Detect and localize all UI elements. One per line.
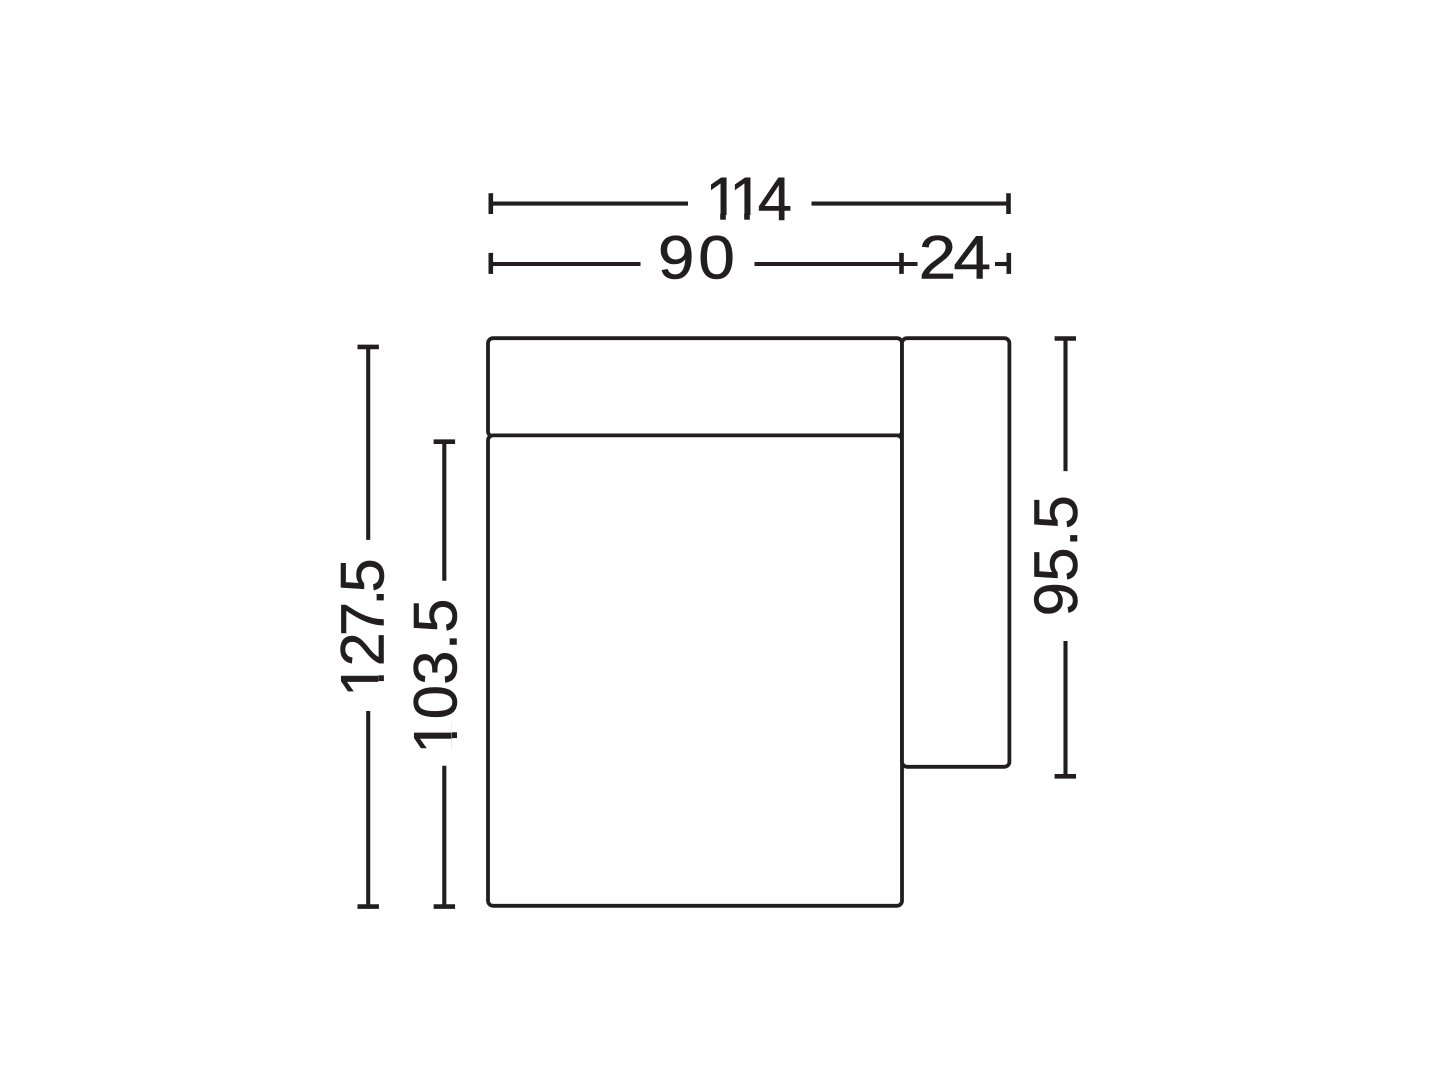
svg-text:127.5: 127.5 (329, 560, 398, 696)
serif mask for digit 1 glyph of label 103.5 (452, 722, 459, 750)
dimension 24 line right segment (995, 262, 1009, 266)
dimension 114 left tick (488, 193, 493, 214)
dimension 127.5 line lower segment (366, 711, 370, 907)
serif mask for digit 1 glyph of label 127.5 (378, 664, 385, 694)
dimension 127.5 bottom tick (358, 904, 379, 909)
sofa seat module outline (488, 435, 902, 905)
right armrest outline (902, 338, 1009, 767)
dimension 103.5 bottom tick (434, 904, 456, 909)
dimension 114 right tick (1006, 193, 1011, 214)
dimension 114 line left segment (491, 202, 688, 206)
dimension 127.5 top tick (358, 345, 379, 350)
svg-text:103.5: 103.5 (402, 598, 471, 754)
dimension 95.5 top tick (1055, 336, 1076, 341)
svg-text:95.5: 95.5 (1022, 495, 1091, 617)
dimension 95.5 line lower segment (1063, 641, 1067, 776)
dimension 95.5 bottom tick (1055, 774, 1076, 779)
sofa backrest outline (488, 338, 902, 436)
dimension 103.5 top tick (434, 439, 456, 444)
dimension 127.5 line upper segment (366, 347, 370, 540)
dimension 114 line right segment (812, 202, 1009, 206)
dimension 103.5 line upper segment (442, 442, 446, 581)
serif mask for digit 1 glyphs of label 114 (709, 214, 762, 221)
dimension 90/24 middle tick (899, 253, 904, 274)
dimension 24 right tick (1006, 253, 1011, 274)
dimension 103.5 line lower segment (442, 766, 446, 907)
dimension 90 left tick (488, 253, 493, 274)
dimension 95.5 line upper segment (1063, 339, 1067, 472)
svg-text:24: 24 (919, 222, 990, 291)
dimension 90 line left segment (491, 262, 641, 266)
dimension 90 line right segment through middle tick (755, 262, 918, 266)
svg-text:90: 90 (658, 223, 739, 292)
